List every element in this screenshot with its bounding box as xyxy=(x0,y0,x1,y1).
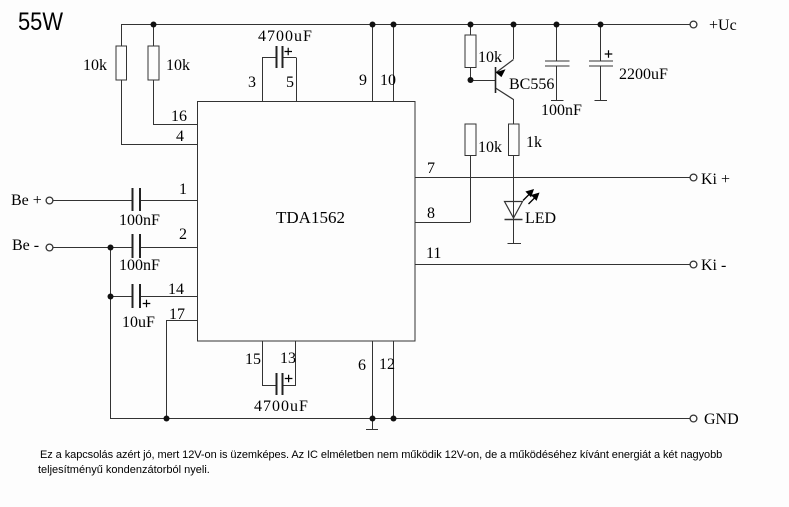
svg-text:7: 7 xyxy=(427,160,435,177)
svg-text:LED: LED xyxy=(525,210,556,227)
svg-text:15: 15 xyxy=(245,351,261,368)
svg-text:Ki -: Ki - xyxy=(701,257,726,274)
svg-text:5: 5 xyxy=(286,74,294,91)
svg-text:100nF: 100nF xyxy=(119,257,160,274)
svg-text:14: 14 xyxy=(168,281,184,298)
svg-text:TDA1562: TDA1562 xyxy=(276,208,345,227)
svg-text:9: 9 xyxy=(359,72,367,89)
svg-text:3: 3 xyxy=(248,74,256,91)
svg-text:+Uc: +Uc xyxy=(709,17,737,34)
svg-text:4700uF: 4700uF xyxy=(254,398,309,415)
svg-text:1k: 1k xyxy=(526,134,542,151)
svg-text:10: 10 xyxy=(380,72,396,89)
svg-text:Be -: Be - xyxy=(12,237,39,254)
svg-text:10k: 10k xyxy=(478,49,502,66)
svg-text:55W: 55W xyxy=(18,8,63,36)
svg-text:10k: 10k xyxy=(478,139,502,156)
svg-text:10uF: 10uF xyxy=(122,314,155,331)
svg-text:100nF: 100nF xyxy=(119,212,160,229)
svg-text:100nF: 100nF xyxy=(541,102,582,119)
svg-text:Ki +: Ki + xyxy=(701,171,730,188)
svg-text:2200uF: 2200uF xyxy=(619,66,668,83)
svg-text:BC556: BC556 xyxy=(509,76,554,93)
svg-text:10k: 10k xyxy=(166,57,190,74)
svg-text:teljesítményű kondenzátorból n: teljesítményű kondenzátorból nyeli. xyxy=(38,464,210,476)
svg-text:6: 6 xyxy=(358,357,366,374)
svg-text:10k: 10k xyxy=(83,57,107,74)
svg-text:11: 11 xyxy=(426,245,441,262)
svg-text:Ez a kapcsolás azért jó, mert: Ez a kapcsolás azért jó, mert 12V-on is … xyxy=(40,449,722,461)
svg-text:Be +: Be + xyxy=(11,192,42,209)
svg-text:16: 16 xyxy=(171,108,187,125)
svg-text:13: 13 xyxy=(280,350,296,367)
svg-text:4: 4 xyxy=(176,128,184,145)
svg-text:1: 1 xyxy=(179,181,187,198)
svg-text:17: 17 xyxy=(169,306,185,323)
svg-text:8: 8 xyxy=(427,205,435,222)
svg-text:2: 2 xyxy=(179,226,187,243)
svg-text:4700uF: 4700uF xyxy=(258,28,313,45)
svg-text:12: 12 xyxy=(379,356,395,373)
svg-text:GND: GND xyxy=(704,411,739,428)
